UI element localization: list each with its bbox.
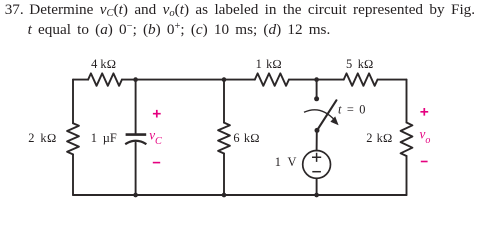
svg-text:2 kΩ: 2 kΩ [366, 131, 392, 145]
switch bottom contact dot [315, 128, 320, 133]
wire top middle segment (4k to 1k) [122, 79, 255, 81]
switch top contact dot [314, 96, 319, 101]
svg-text:2 kΩ: 2 kΩ [28, 131, 57, 145]
problem statement number 37. [5, 2, 24, 17]
switch blade (opens at t=0) [317, 100, 336, 130]
wire top-left horizontal segment [73, 79, 88, 81]
wire capacitor branch lower [135, 143, 137, 195]
node dot bottom of capacitor branch [133, 193, 138, 198]
wire left rail lower [72, 154, 74, 195]
node dot top of 6k branch [222, 77, 227, 82]
svg-text:t = 0: t = 0 [338, 103, 365, 117]
svg-text:1 µF: 1 µF [91, 131, 117, 145]
switch action arc arrow [304, 110, 335, 121]
svg-text:4 kΩ: 4 kΩ [91, 57, 116, 71]
wire switch to source [316, 130, 318, 150]
svg-text:vC: vC [149, 127, 162, 147]
resistor 2 kOhm (left) [67, 123, 79, 154]
svg-text:5 kΩ: 5 kΩ [346, 57, 373, 71]
resistor 6 kOhm (middle) [218, 123, 230, 154]
wire source to bottom [316, 178, 318, 195]
capacitor voltage minus mark [153, 162, 160, 164]
output voltage plus mark [420, 108, 428, 116]
voltage source V1 circle (1 V) [303, 151, 331, 179]
problem statement line 1 [29, 2, 475, 19]
wire 6k branch lower [223, 154, 225, 196]
wire switch branch top stub [316, 80, 318, 99]
wire bottom horizontal [73, 194, 407, 196]
resistor 1 kOhm (top middle) [255, 73, 289, 85]
wire left rail upper [72, 80, 74, 124]
svg-text:6 kΩ: 6 kΩ [233, 131, 259, 145]
capacitor voltage plus mark [153, 110, 161, 118]
wire capacitor branch upper [135, 80, 137, 134]
source minus sign [312, 171, 321, 173]
node dot bottom of 6k branch [222, 193, 227, 198]
source plus sign [312, 153, 321, 162]
svg-text:1 V: 1 V [275, 155, 297, 169]
node dot top of switch branch [314, 77, 319, 82]
node dot bottom of source branch [314, 193, 319, 198]
wire right rail lower [406, 156, 408, 195]
resistor 2 kOhm (right, output) [401, 123, 413, 157]
wire top segment (1k to 5k) [289, 79, 344, 81]
resistor 5 kOhm (top right) [344, 73, 378, 85]
capacitor C1 bottom curved plate [125, 141, 146, 144]
wire right rail upper [406, 80, 408, 123]
wire top-right segment [378, 79, 407, 81]
resistor 4 kOhm (top left) [88, 73, 122, 85]
svg-text:1 kΩ: 1 kΩ [256, 57, 282, 71]
svg-text:vo: vo [420, 126, 431, 146]
wire 6k branch upper [223, 80, 225, 123]
node dot top of capacitor branch [133, 77, 138, 82]
capacitor C1 top plate [126, 133, 147, 136]
switch arc arrowhead [330, 116, 338, 125]
problem statement line 2 [28, 22, 331, 39]
output voltage minus mark [421, 161, 428, 163]
